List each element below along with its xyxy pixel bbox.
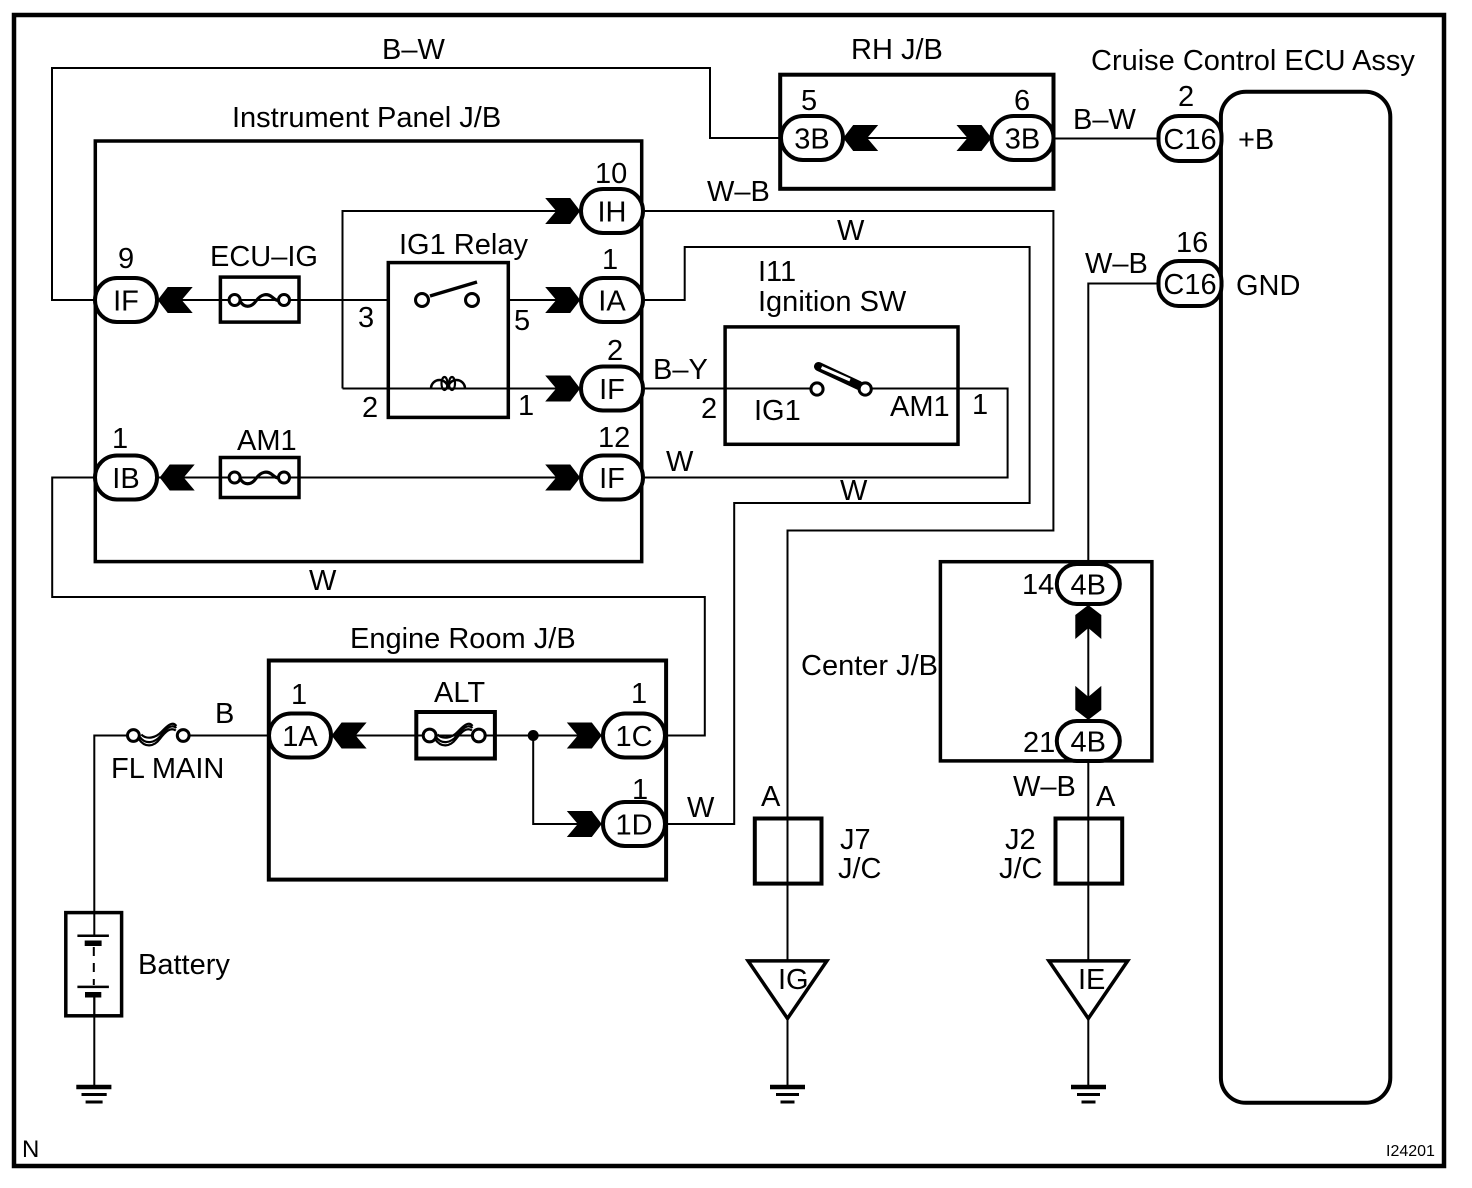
connector 4B(14) (1022, 564, 1120, 604)
wire relay coil row to IF(2) (343, 388, 582, 390)
svg-text:1A: 1A (282, 721, 318, 753)
junction block Instrument Panel J/B (95, 141, 641, 562)
svg-text:B–W: B–W (382, 34, 445, 66)
wire B-Y from IF(2) to ignition switch IG1 contact (643, 388, 811, 390)
svg-text:16: 16 (1176, 227, 1208, 259)
ground IG bars (770, 1087, 805, 1102)
svg-text:4B: 4B (1071, 570, 1106, 602)
svg-text:1D: 1D (615, 810, 652, 842)
wire B-W from IF(9) to RH J/B 3B(5) (52, 68, 781, 300)
svg-text:AM1: AM1 (890, 391, 950, 423)
svg-text:6: 6 (1014, 85, 1030, 117)
svg-text:21: 21 (1023, 727, 1055, 759)
connector 1C (603, 678, 665, 758)
svg-text:ALT: ALT (434, 677, 485, 709)
connector 3B(6) (992, 85, 1054, 160)
svg-text:B: B (215, 698, 234, 730)
svg-text:10: 10 (595, 158, 627, 190)
svg-text:2: 2 (1178, 81, 1194, 113)
svg-text:A: A (1096, 781, 1116, 813)
svg-text:J7: J7 (840, 824, 871, 856)
svg-text:1: 1 (631, 678, 647, 710)
battery box (66, 913, 122, 1016)
svg-text:I11: I11 (758, 256, 796, 288)
svg-text:B–W: B–W (1073, 104, 1136, 136)
svg-text:2: 2 (607, 335, 623, 367)
svg-text:1: 1 (972, 389, 988, 421)
svg-text:W: W (840, 475, 868, 507)
svg-text:IF: IF (599, 463, 625, 495)
wire IE triangle tip to ground (1087, 1019, 1089, 1087)
svg-text:Center J/B: Center J/B (801, 650, 938, 682)
svg-text:B–Y: B–Y (653, 354, 708, 386)
arrow into IF(12) (545, 465, 580, 491)
wire B-W from 3B(6) to C16(+B) (1054, 138, 1159, 140)
ECU box Cruise Control ECU Assy (1221, 92, 1390, 1103)
wire ignition switch AM1 pin 1 to IF(12) (643, 389, 1008, 478)
relay coil (431, 377, 465, 390)
svg-text:IF: IF (599, 374, 625, 406)
junction block Center J/B (940, 562, 1152, 761)
wire battery positive to FL MAIN to 1A (94, 736, 128, 914)
svg-text:5: 5 (514, 305, 530, 337)
wire relay pin 2 branch vertical to IH row (343, 211, 582, 389)
svg-text:J/C: J/C (999, 853, 1043, 885)
svg-text:W: W (309, 565, 337, 597)
svg-text:Engine Room J/B: Engine Room J/B (350, 623, 576, 655)
relay switch contacts and lever (416, 282, 479, 307)
wire between 4B(14) and 4B(21) (1087, 604, 1089, 721)
wire 1A through ALT fuse to 1C (330, 735, 603, 737)
connector 3B(5) (781, 85, 843, 160)
svg-text:IF: IF (113, 286, 139, 318)
connector IF(2) (581, 335, 643, 411)
arrow into IH(10) (545, 198, 580, 224)
arrow up inside Center J/B (1075, 605, 1101, 639)
svg-text:FL MAIN: FL MAIN (111, 753, 224, 785)
connector 4B(21) (1023, 721, 1120, 761)
svg-text:IG: IG (778, 964, 809, 996)
ground triangle IG (748, 961, 827, 1019)
svg-text:4B: 4B (1071, 727, 1106, 759)
svg-text:+B: +B (1238, 124, 1274, 156)
svg-text:GND: GND (1236, 270, 1300, 302)
svg-text:I24201: I24201 (1386, 1143, 1435, 1160)
svg-text:IH: IH (598, 197, 627, 229)
fusible link ALT (416, 677, 495, 759)
node junction dot at ALT output (528, 730, 539, 741)
connector J7 J/C square (755, 819, 822, 884)
svg-text:5: 5 (801, 85, 817, 117)
wire W from IB(1) to 1C (52, 478, 705, 736)
junction block RH J/B (780, 75, 1053, 189)
wire junction branch to 1D (533, 736, 603, 825)
connector IH(10) (581, 158, 643, 233)
wire relay pin 5 to IA(1) (508, 299, 581, 301)
svg-text:W: W (837, 215, 865, 247)
ignition switch contacts and lever (811, 367, 871, 396)
fuse ECU-IG (210, 241, 318, 322)
arrow into 3B(5) (843, 125, 878, 151)
wire W-B from C16(GND) to Center J/B 4B(14) (1088, 284, 1159, 565)
ground battery (76, 1087, 111, 1102)
svg-text:1: 1 (518, 390, 534, 422)
arrow into IA(1) (545, 287, 580, 313)
wire IG triangle tip to ground (787, 1019, 789, 1087)
svg-text:12: 12 (598, 422, 630, 454)
ground triangle IE (1049, 961, 1128, 1019)
ground IE bars (1071, 1087, 1106, 1102)
svg-text:W–B: W–B (1085, 248, 1148, 280)
svg-text:3: 3 (358, 302, 374, 334)
svg-text:W–B: W–B (707, 176, 770, 208)
arrow into IF(9) (158, 287, 193, 313)
wire W-B from IH(10) to J7 J/C and IG ground (643, 211, 1053, 961)
connector IB(1) (95, 423, 157, 500)
wire IB(1) through AM1 fuse to IF(12) (157, 477, 581, 479)
svg-text:2: 2 (362, 392, 378, 424)
fusible link FL MAIN (111, 698, 234, 785)
svg-text:N: N (22, 1136, 39, 1163)
battery internals (77, 913, 109, 1016)
svg-text:Ignition SW: Ignition SW (758, 286, 907, 318)
svg-text:Instrument Panel J/B: Instrument Panel J/B (232, 102, 501, 134)
svg-text:3B: 3B (1005, 124, 1040, 156)
connector IF(12) (581, 422, 643, 500)
svg-text:1: 1 (602, 244, 618, 276)
switch I11 Ignition SW box (725, 327, 958, 444)
arrow into 1D (567, 811, 602, 837)
arrow into 1A (332, 723, 367, 749)
connector IA(1) (581, 244, 643, 322)
arrow into IB(1) (160, 465, 195, 491)
svg-text:IE: IE (1078, 964, 1105, 996)
arrow into 3B(6) (957, 125, 992, 151)
svg-text:A: A (761, 781, 781, 813)
wire IF(9) through ECU-IG fuse to relay pin 3 (157, 299, 388, 301)
svg-text:14: 14 (1022, 569, 1054, 601)
svg-text:9: 9 (118, 243, 134, 275)
svg-text:J/C: J/C (838, 853, 882, 885)
svg-text:ECU–IG: ECU–IG (210, 241, 318, 273)
wire battery negative to ground (93, 995, 95, 1086)
svg-text:IA: IA (598, 286, 626, 318)
wire W-B from 4B(21) to J2 J/C and IE ground (1087, 761, 1089, 961)
svg-text:IB: IB (112, 463, 139, 495)
svg-text:AM1: AM1 (237, 425, 297, 457)
svg-text:1: 1 (112, 423, 128, 455)
svg-text:1: 1 (291, 679, 307, 711)
junction block Engine Room J/B (269, 661, 666, 880)
connector C16 pin 16 GND (1159, 227, 1301, 306)
svg-text:IG1: IG1 (754, 395, 801, 427)
arrow into 1C (567, 723, 602, 749)
svg-text:1C: 1C (615, 721, 652, 753)
svg-text:3B: 3B (794, 124, 829, 156)
svg-text:C16: C16 (1163, 269, 1216, 301)
arrow down inside Center J/B (1075, 686, 1101, 720)
arrow into IF(2) (545, 376, 580, 402)
connector 1A (269, 679, 331, 758)
svg-text:Cruise Control ECU Assy: Cruise Control ECU Assy (1091, 45, 1415, 77)
svg-text:Battery: Battery (138, 949, 230, 981)
svg-text:W: W (666, 446, 694, 478)
wire W from IA(1) to 1D via ignition feed loop (643, 247, 1030, 824)
connector IF(9) (95, 243, 157, 322)
fuse AM1 (220, 425, 299, 498)
connector C16 pin 2 +B (1159, 81, 1275, 161)
relay U IG1 Relay box (388, 263, 508, 418)
svg-text:W: W (687, 792, 715, 824)
connector 1D (603, 774, 665, 846)
svg-text:IG1 Relay: IG1 Relay (399, 229, 528, 261)
wire inside RH J/B between 3B(5) and 3B(6) (843, 137, 992, 139)
svg-text:W–B: W–B (1013, 771, 1076, 803)
svg-text:C16: C16 (1163, 124, 1216, 156)
connector J2 J/C square (1056, 819, 1123, 884)
svg-text:RH J/B: RH J/B (851, 34, 943, 66)
svg-text:J2: J2 (1005, 824, 1036, 856)
svg-text:1: 1 (632, 774, 648, 806)
svg-text:2: 2 (701, 393, 717, 425)
